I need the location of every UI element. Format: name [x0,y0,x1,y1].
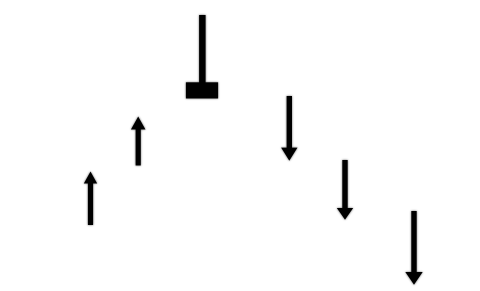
crisp glyph layer [84,15,423,285]
soft anti-alias skirt layer [84,15,423,285]
